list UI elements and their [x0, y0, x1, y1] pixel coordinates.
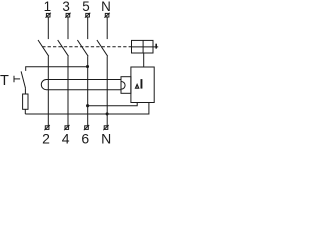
handle bar	[155, 44, 157, 49]
wire pole3 upper	[67, 17, 69, 39]
svg-text:N: N	[101, 0, 111, 14]
mechanical linkage (dashed)	[42, 46, 131, 48]
svg-text:1: 1	[44, 0, 51, 14]
wire delta-I phase tap	[88, 103, 138, 106]
switch contact pole 5	[77, 40, 88, 56]
wire poleN lower	[106, 56, 108, 125]
CT secondary bump	[121, 82, 125, 90]
wire pole5 upper	[87, 17, 89, 39]
test/neutral return wire	[25, 103, 149, 115]
terminal clamp 3 (top)	[65, 13, 70, 18]
wire pole1 lower	[47, 56, 49, 125]
svg-text:2: 2	[42, 130, 50, 146]
test resistor	[23, 94, 28, 109]
terminal clamp 6 (bottom)	[84, 125, 89, 130]
test tap wire (pole 5 to test button)	[26, 67, 88, 71]
terminal clamp N (bottom)	[103, 125, 108, 130]
test button actuator	[14, 76, 20, 83]
svg-text:3: 3	[62, 0, 69, 14]
junction neutral tap	[106, 112, 109, 115]
svg-text:4: 4	[62, 130, 70, 146]
wire pole1 upper	[47, 17, 49, 39]
current transformer core	[41, 80, 121, 90]
wire relay to delta-I module	[143, 53, 145, 67]
terminal clamp 1 (top)	[46, 13, 51, 18]
CT coupler box	[121, 77, 131, 94]
junction phase tap on pole 5	[86, 104, 89, 107]
delta-I release module	[131, 67, 154, 103]
switch contact pole N	[97, 40, 108, 56]
wire blade to resistor	[24, 88, 26, 94]
trip relay box	[132, 40, 154, 53]
svg-text:6: 6	[81, 130, 89, 146]
terminal clamp N (top)	[104, 13, 109, 18]
switch contact pole 3	[58, 40, 69, 56]
switch contact pole 1	[38, 40, 49, 56]
junction test tap on pole 5	[86, 65, 89, 68]
test button contact blade	[21, 71, 25, 88]
linkage through relay to handle	[132, 46, 159, 48]
wire pole5 lower	[87, 56, 89, 125]
svg-text:5: 5	[82, 0, 89, 14]
wire pole3 lower	[67, 56, 69, 125]
svg-text:T: T	[0, 73, 9, 89]
I bar of delta-I	[141, 79, 143, 89]
wire resistor down	[24, 109, 26, 114]
terminal clamp 5 (top)	[85, 13, 90, 18]
terminal clamp 2 (bottom)	[44, 125, 49, 130]
wire poleN upper	[106, 17, 108, 39]
delta symbol	[136, 85, 139, 89]
terminal clamp 4 (bottom)	[64, 125, 69, 130]
svg-text:N: N	[101, 130, 111, 146]
